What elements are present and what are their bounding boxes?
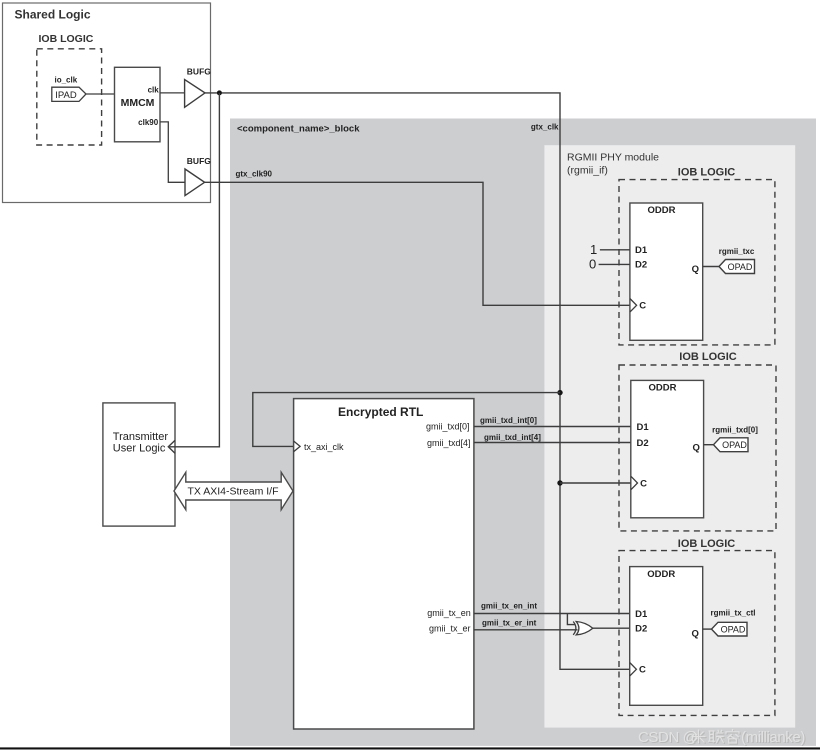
svg-text:<component_name>_block: <component_name>_block (237, 124, 360, 135)
svg-text:OPAD: OPAD (728, 262, 753, 272)
wire gmii_txd_int[0] (474, 426, 631, 428)
wire Q1 to OPAD1 (703, 266, 719, 268)
svg-text:rgmii_txc: rgmii_txc (719, 247, 755, 256)
svg-text:gmii_tx_en_int: gmii_tx_en_int (481, 601, 537, 610)
svg-text:IOB LOGIC: IOB LOGIC (678, 538, 736, 550)
svg-text:IOB LOGIC: IOB LOGIC (39, 33, 94, 45)
net gtx_clk90: BUFG2 out to ODDR1 C (205, 182, 630, 305)
svg-text:C: C (640, 478, 647, 489)
buffer BUFG1 (185, 80, 205, 108)
svg-text:D1: D1 (637, 422, 650, 433)
wire Q3 to OPAD3 (703, 628, 712, 630)
svg-text:Q: Q (692, 264, 699, 275)
svg-text:tx_axi_clk: tx_axi_clk (304, 442, 344, 452)
pad OPAD3 (712, 622, 748, 636)
RGMII PHY module background (544, 145, 795, 727)
svg-text:rgmii_tx_ctl: rgmii_tx_ctl (711, 608, 756, 617)
svg-text:io_clk: io_clk (55, 76, 78, 85)
wire gtx_clk to ODDR2 C (560, 482, 631, 484)
pin C ODDR2 clock triangle (631, 476, 638, 490)
pin C ODDR1 clock triangle (630, 299, 637, 313)
svg-text:rgmii_txd[0]: rgmii_txd[0] (712, 426, 758, 435)
pin C ODDR3 clock triangle (630, 663, 637, 677)
svg-text:OPAD: OPAD (721, 625, 746, 635)
wire gmii_txd_int[4] (474, 442, 631, 444)
wire const0 to D2 (599, 263, 630, 265)
svg-text:CSDN @: CSDN @ (638, 729, 698, 746)
svg-text:ODDR: ODDR (648, 205, 676, 216)
junction gtx_clk to tx_axi_clk branch (557, 390, 562, 395)
flip-flop ODDR1 (630, 203, 703, 340)
pin tx_axi_clk clock triangle (294, 441, 301, 452)
junction gtx_clk to ODDR2 C branch (557, 480, 562, 485)
svg-text:D1: D1 (635, 609, 648, 620)
svg-text:gmii_txd[4]: gmii_txd[4] (427, 438, 471, 448)
wire MMCM clk90 to BUFG2 (160, 122, 185, 182)
svg-text:C: C (639, 665, 646, 676)
arrowhead into Transmitter User Logic (168, 440, 175, 453)
svg-text:RGMII PHY module: RGMII PHY module (567, 152, 659, 164)
svg-text:ODDR: ODDR (649, 382, 677, 393)
wire const1 to D1 (600, 249, 630, 251)
wire branch en to XOR input (567, 614, 575, 625)
svg-text:C: C (639, 301, 646, 312)
watermark shadow (639, 730, 806, 747)
gate XOR U2 (576, 622, 593, 635)
svg-text:Q: Q (692, 629, 699, 640)
IOB LOGIC dashed box (shared) (37, 49, 102, 145)
watermark (638, 729, 805, 746)
svg-text:Encrypted RTL: Encrypted RTL (338, 405, 423, 419)
svg-text:gtx_clk90: gtx_clk90 (236, 169, 273, 178)
svg-text:D1: D1 (635, 245, 648, 256)
svg-text:Transmitter: Transmitter (113, 431, 169, 443)
component block background (230, 119, 816, 746)
wire clk down to Transmitter User Logic (170, 93, 220, 447)
flip-flop ODDR3 (630, 567, 703, 706)
svg-text:OPAD: OPAD (722, 440, 747, 450)
junction on clk at BUFG1 output (217, 90, 222, 95)
svg-text:clk90: clk90 (138, 118, 159, 127)
MMCM U1 (115, 67, 161, 142)
svg-text:BUFG: BUFG (187, 156, 211, 166)
TX AXI4-Stream I/F double arrow (174, 472, 293, 509)
buffer BUFG2 (185, 169, 205, 196)
wire IPAD to MMCM (86, 93, 115, 95)
IOB LOGIC dashed box 3 (619, 551, 775, 716)
svg-text:IOB LOGIC: IOB LOGIC (679, 351, 737, 363)
net gtx_clk: BUFG1 out, right then down to ODDR3 C (205, 93, 630, 669)
wire XOR out to ODDR3 D2 (593, 627, 630, 629)
svg-text:gmii_txd_int[4]: gmii_txd_int[4] (484, 433, 541, 442)
svg-text:IOB LOGIC: IOB LOGIC (678, 167, 736, 179)
svg-text:MMCM: MMCM (121, 97, 155, 109)
flip-flop ODDR2 (631, 380, 704, 517)
svg-text:gtx_clk: gtx_clk (531, 122, 559, 131)
wire gmii_tx_en_int (474, 613, 630, 615)
svg-text:Q: Q (693, 442, 700, 453)
svg-text:BUFG: BUFG (187, 67, 211, 77)
svg-text:0: 0 (589, 256, 596, 271)
wire Q2 to OPAD2 (704, 444, 714, 446)
bottom rule (0, 747, 820, 749)
pad OPAD1 (719, 260, 755, 274)
svg-text:D2: D2 (637, 438, 649, 449)
svg-text:1: 1 (590, 242, 597, 257)
IOB LOGIC dashed box 2 (619, 365, 776, 531)
svg-text:gmii_tx_er_int: gmii_tx_er_int (482, 618, 537, 627)
wire gtx_clk to tx_axi_clk pin (253, 393, 560, 447)
Transmitter User Logic box (103, 403, 175, 526)
svg-text:(millianke): (millianke) (741, 729, 805, 746)
svg-text:D2: D2 (635, 260, 647, 271)
svg-text:TX AXI4-Stream I/F: TX AXI4-Stream I/F (187, 486, 278, 498)
svg-text:gmii_tx_en: gmii_tx_en (427, 608, 471, 618)
pad OPAD2 (714, 438, 749, 452)
svg-text:ODDR: ODDR (647, 569, 675, 580)
svg-text:User Logic: User Logic (113, 442, 166, 454)
Encrypted RTL box (294, 399, 474, 729)
svg-text:clk: clk (148, 86, 160, 95)
svg-text:gmii_tx_er: gmii_tx_er (429, 623, 471, 633)
svg-text:(rgmii_if): (rgmii_if) (567, 165, 608, 177)
svg-text:gmii_txd_int[0]: gmii_txd_int[0] (480, 416, 537, 425)
svg-text:IPAD: IPAD (55, 90, 77, 101)
svg-text:gmii_txd[0]: gmii_txd[0] (426, 421, 470, 431)
wire MMCM clk to BUFG1 (160, 92, 185, 94)
svg-text:Shared Logic: Shared Logic (15, 8, 91, 22)
IOB LOGIC dashed box 1 (619, 180, 775, 345)
svg-text:D2: D2 (635, 624, 647, 635)
wire gmii_tx_er_int (474, 629, 578, 631)
pad IPAD (52, 87, 86, 101)
Shared Logic box (3, 3, 211, 203)
